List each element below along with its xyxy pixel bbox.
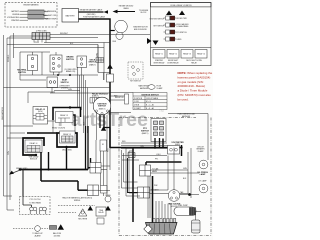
svg-text:PPL: PPL xyxy=(155,159,158,161)
cab left wires xyxy=(122,150,138,188)
svg-text:RELAY #3 (SCH): RELAY #3 (SCH) xyxy=(52,127,65,130)
svg-text:NOTE: When replacing the: NOTE: When replacing the xyxy=(178,71,213,75)
svg-text:TO ENG HARN: TO ENG HARN xyxy=(29,202,41,205)
ignition triangle xyxy=(101,126,106,131)
heavy drops from relays xyxy=(49,147,67,170)
solenoid feed stub xyxy=(110,30,115,32)
deck switch xyxy=(77,56,87,68)
relay R5 xyxy=(60,131,76,143)
svg-text:ALARM: ALARM xyxy=(35,234,41,237)
pto pins heavy xyxy=(155,138,160,147)
svg-text:SWITCH: SWITCH xyxy=(61,82,69,84)
svg-text:M + G: M + G xyxy=(146,101,151,103)
pto coil B xyxy=(39,207,46,214)
pto switch xyxy=(151,119,166,142)
connector J2 grid xyxy=(32,33,50,40)
fuse squares column xyxy=(166,16,175,41)
svg-text:RELAY: RELAY xyxy=(191,61,197,64)
relay module connector xyxy=(90,98,99,104)
relay R3 xyxy=(56,112,74,123)
ignition terminals xyxy=(95,110,108,115)
pto feed xyxy=(23,197,32,208)
ground bus heavy xyxy=(20,169,88,171)
switch row wires xyxy=(20,52,110,80)
svg-text:STARTER: STARTER xyxy=(11,19,20,22)
harness trunk to connector xyxy=(156,201,171,218)
svg-text:RED/WHT: RED/WHT xyxy=(60,33,68,35)
svg-text:GRND: GRND xyxy=(177,39,183,41)
svg-text:PTO CLUTCH: PTO CLUTCH xyxy=(30,199,42,201)
fuse F1 xyxy=(148,85,155,90)
oil press lamp xyxy=(199,160,208,169)
cab section border xyxy=(119,118,211,236)
svg-text:a Diode / Timer Module: a Diode / Timer Module xyxy=(178,89,208,93)
fuel gauge xyxy=(168,190,180,202)
brake switch xyxy=(50,55,62,72)
svg-text:KEYED PWR: KEYED PWR xyxy=(177,18,188,20)
diode block center xyxy=(100,140,107,151)
svg-text:SWITCH: SWITCH xyxy=(66,59,74,61)
wires from J2 xyxy=(7,35,150,81)
center column lower xyxy=(101,186,108,194)
service note xyxy=(178,71,213,101)
relay R2 xyxy=(33,107,48,125)
inline connector on bus xyxy=(107,74,114,82)
svg-text:RELAY #2: RELAY #2 xyxy=(169,52,177,55)
time delay module xyxy=(96,207,106,216)
svg-text:harness panel (SA00154): harness panel (SA00154) xyxy=(178,75,211,79)
ignition drop wires xyxy=(100,115,110,148)
svg-text:KEY SWITCH: KEY SWITCH xyxy=(154,25,165,27)
svg-text:SWITCH: SWITCH xyxy=(18,72,26,74)
svg-text:VOLTAGE REG: VOLTAGE REG xyxy=(7,16,20,19)
mid-left wires xyxy=(4,88,111,104)
lts lamp xyxy=(199,184,208,193)
relay R4 xyxy=(25,140,42,153)
J2 pin stubs xyxy=(34,40,46,43)
to engine block wire w/ arrow xyxy=(117,11,135,13)
dash panel box xyxy=(151,3,212,66)
svg-text:HARN: HARN xyxy=(152,170,158,173)
svg-text:(P/N: SF00573) must also: (P/N: SF00573) must also xyxy=(178,93,212,97)
negative cable arrow xyxy=(104,10,109,14)
svg-text:BATTERY: BATTERY xyxy=(11,10,20,13)
svg-text:KEY SWITCH: KEY SWITCH xyxy=(130,81,141,83)
svg-text:be used.: be used. xyxy=(178,97,189,101)
triangle marker B xyxy=(179,11,185,16)
bus triangle xyxy=(107,64,113,69)
svg-text:RECTIFIER: RECTIFIER xyxy=(78,218,88,220)
svg-text:& DASH PANEL: & DASH PANEL xyxy=(177,25,189,28)
svg-text:2000001319 - Below): 2000001319 - Below) xyxy=(178,84,206,88)
starter solenoid xyxy=(115,20,128,33)
fuel filter xyxy=(192,220,201,233)
svg-text:INTER RELAY: INTER RELAY xyxy=(154,61,166,64)
svg-text:RELAY #4: RELAY #4 xyxy=(30,142,38,145)
pto coil A xyxy=(30,207,37,214)
diode assy xyxy=(105,196,111,202)
svg-text:DELAY MOD: DELAY MOD xyxy=(62,149,73,152)
svg-text:NEGATIVE BATTERY CABLE: NEGATIVE BATTERY CABLE xyxy=(80,9,103,12)
key switch dashed detail xyxy=(128,62,143,79)
svg-text:B + S + A1: B + S + A1 xyxy=(146,107,154,110)
svg-text:DIODE: DIODE xyxy=(105,195,111,197)
cab inner thin frame xyxy=(126,148,140,196)
panel edge triangle xyxy=(147,38,152,44)
neutral switch xyxy=(28,55,38,71)
svg-text:RELAY #3: RELAY #3 xyxy=(183,52,191,55)
svg-text:RELAY #1: RELAY #1 xyxy=(155,52,163,55)
backup alarm xyxy=(35,226,41,232)
svg-text:(EARLY): (EARLY) xyxy=(99,107,106,110)
svg-text:OIL PRESSURE: OIL PRESSURE xyxy=(44,11,57,13)
negative battery cable xyxy=(79,11,104,13)
svg-text:BRAKE ON): BRAKE ON) xyxy=(66,70,76,73)
cab feed to C8 xyxy=(128,158,138,193)
connector C5 xyxy=(90,163,101,174)
cab wires xyxy=(121,143,199,218)
ground triangle in panel xyxy=(153,41,159,46)
svg-text:RELAY #3: RELAY #3 xyxy=(60,114,68,117)
svg-text:RED/BLK: RED/BLK xyxy=(8,54,10,62)
svg-text:MODULE: MODULE xyxy=(30,159,38,161)
svg-text:SWITCH: SWITCH xyxy=(89,62,97,64)
main connector body xyxy=(146,223,178,235)
svg-text:FUSE & RELAY LOCATION: FUSE & RELAY LOCATION xyxy=(171,4,193,7)
leader dashes xyxy=(58,206,95,213)
aux box xyxy=(97,218,104,224)
seat switch xyxy=(47,77,58,88)
svg-text:20 AMP: 20 AMP xyxy=(198,150,205,153)
svg-text:AND SOLENOID: AND SOLENOID xyxy=(134,28,148,31)
cab connector C7 xyxy=(140,165,151,176)
starter motor xyxy=(116,32,123,39)
rectifier xyxy=(79,209,87,216)
svg-text:SWITCH: SWITCH xyxy=(98,106,106,108)
heavy distribution net xyxy=(133,139,182,223)
left bus wires xyxy=(4,33,33,210)
svg-text:D1: D1 xyxy=(102,144,104,146)
svg-text:HARNESS: HARNESS xyxy=(140,87,149,90)
svg-text:CIRCUIT MADE: CIRCUIT MADE xyxy=(146,97,159,100)
svg-text:on gas models (S/N:: on gas models (S/N: xyxy=(178,80,204,84)
battery xyxy=(62,9,79,23)
cab connector C8 xyxy=(138,187,150,198)
tdm ground triangle xyxy=(88,206,94,211)
ballast resistor xyxy=(50,226,57,230)
triangle marker A xyxy=(166,11,172,16)
svg-text:ENGINE HARNESS: ENGINE HARNESS xyxy=(23,4,39,7)
svg-text:WIRING: WIRING xyxy=(74,200,81,202)
svg-text:B + L + A1: B + L + A1 xyxy=(146,104,154,107)
relay #3 xyxy=(181,50,193,59)
relay #1 xyxy=(153,50,165,59)
svg-text:FUEL PUMP: FUEL PUMP xyxy=(178,205,188,207)
svg-text:12 PIN CONN: 12 PIN CONN xyxy=(36,30,47,32)
svg-text:LAMP: LAMP xyxy=(200,173,206,176)
svg-text:DELAY: DELAY xyxy=(98,211,104,214)
relay #2 xyxy=(167,50,179,59)
aux connector grid xyxy=(96,58,104,63)
svg-text:BLOCK: BLOCK xyxy=(141,12,148,14)
positive battery cable xyxy=(79,19,111,148)
diode diamond xyxy=(144,225,152,233)
svg-text:DOWN RELAY: DOWN RELAY xyxy=(167,61,179,64)
svg-text:IGNITION SWITCH: IGNITION SWITCH xyxy=(141,94,159,96)
connector C6 xyxy=(88,185,99,196)
svg-text:IGNITION SWITCH: IGNITION SWITCH xyxy=(149,18,164,20)
ignition switch table xyxy=(133,93,167,110)
svg-text:1 OFF: 1 OFF xyxy=(134,101,139,103)
svg-text:L BLU: L BLU xyxy=(130,154,135,156)
relay R5 heavy loop xyxy=(57,133,77,147)
svg-text:HARNESS: HARNESS xyxy=(182,115,191,118)
svg-text:LTS SWITCH: LTS SWITCH xyxy=(177,32,188,34)
heavy link to loops xyxy=(27,132,57,134)
svg-text:RELAY #4: RELAY #4 xyxy=(197,52,205,55)
engine harness dashed box xyxy=(5,3,57,28)
connector J1 grid xyxy=(28,10,44,19)
svg-text:20 AMP: 20 AMP xyxy=(157,87,164,90)
svg-text:(DIODE): (DIODE) xyxy=(54,235,61,237)
svg-text:3 START: 3 START xyxy=(134,107,141,110)
svg-text:MAIN HARNESS: MAIN HARNESS xyxy=(1,106,4,120)
svg-text:POSITIVE BATTERY CABLE: POSITIVE BATTERY CABLE xyxy=(83,16,106,19)
relay R4 heavy loop xyxy=(23,138,44,155)
svg-text:(EARLY): (EARLY) xyxy=(89,63,96,66)
svg-text:2 RUN: 2 RUN xyxy=(134,105,140,107)
staple-loop links xyxy=(53,120,75,133)
heavy verticals to lower relays xyxy=(86,126,89,170)
main connector pins xyxy=(153,219,176,224)
bundle drop wires xyxy=(78,45,108,164)
svg-text:POSITION: POSITION xyxy=(134,98,143,100)
svg-text:(SCH): (SCH) xyxy=(38,111,43,113)
left links xyxy=(4,126,111,191)
svg-text:(EARLY): (EARLY) xyxy=(92,95,99,98)
backup alarm leader xyxy=(13,228,48,230)
resistor xyxy=(125,94,129,104)
svg-text:RELAY #5: RELAY #5 xyxy=(63,133,71,136)
relay #4 xyxy=(195,50,207,59)
J1 leader wires xyxy=(20,11,49,20)
svg-text:L BLU: L BLU xyxy=(156,154,161,156)
pto clutch dashed box xyxy=(20,197,51,215)
frame ground arrow xyxy=(10,171,19,175)
svg-text:LTS LAMP: LTS LAMP xyxy=(198,179,207,182)
ignition switch xyxy=(93,97,111,115)
svg-text:BATTERY: BATTERY xyxy=(66,15,76,18)
svg-text:CABLE: CABLE xyxy=(123,7,129,10)
svg-text:ENGINE: ENGINE xyxy=(13,14,20,16)
thick wire staple upper xyxy=(53,108,81,121)
svg-text:(EARLY): (EARLY) xyxy=(142,132,149,135)
